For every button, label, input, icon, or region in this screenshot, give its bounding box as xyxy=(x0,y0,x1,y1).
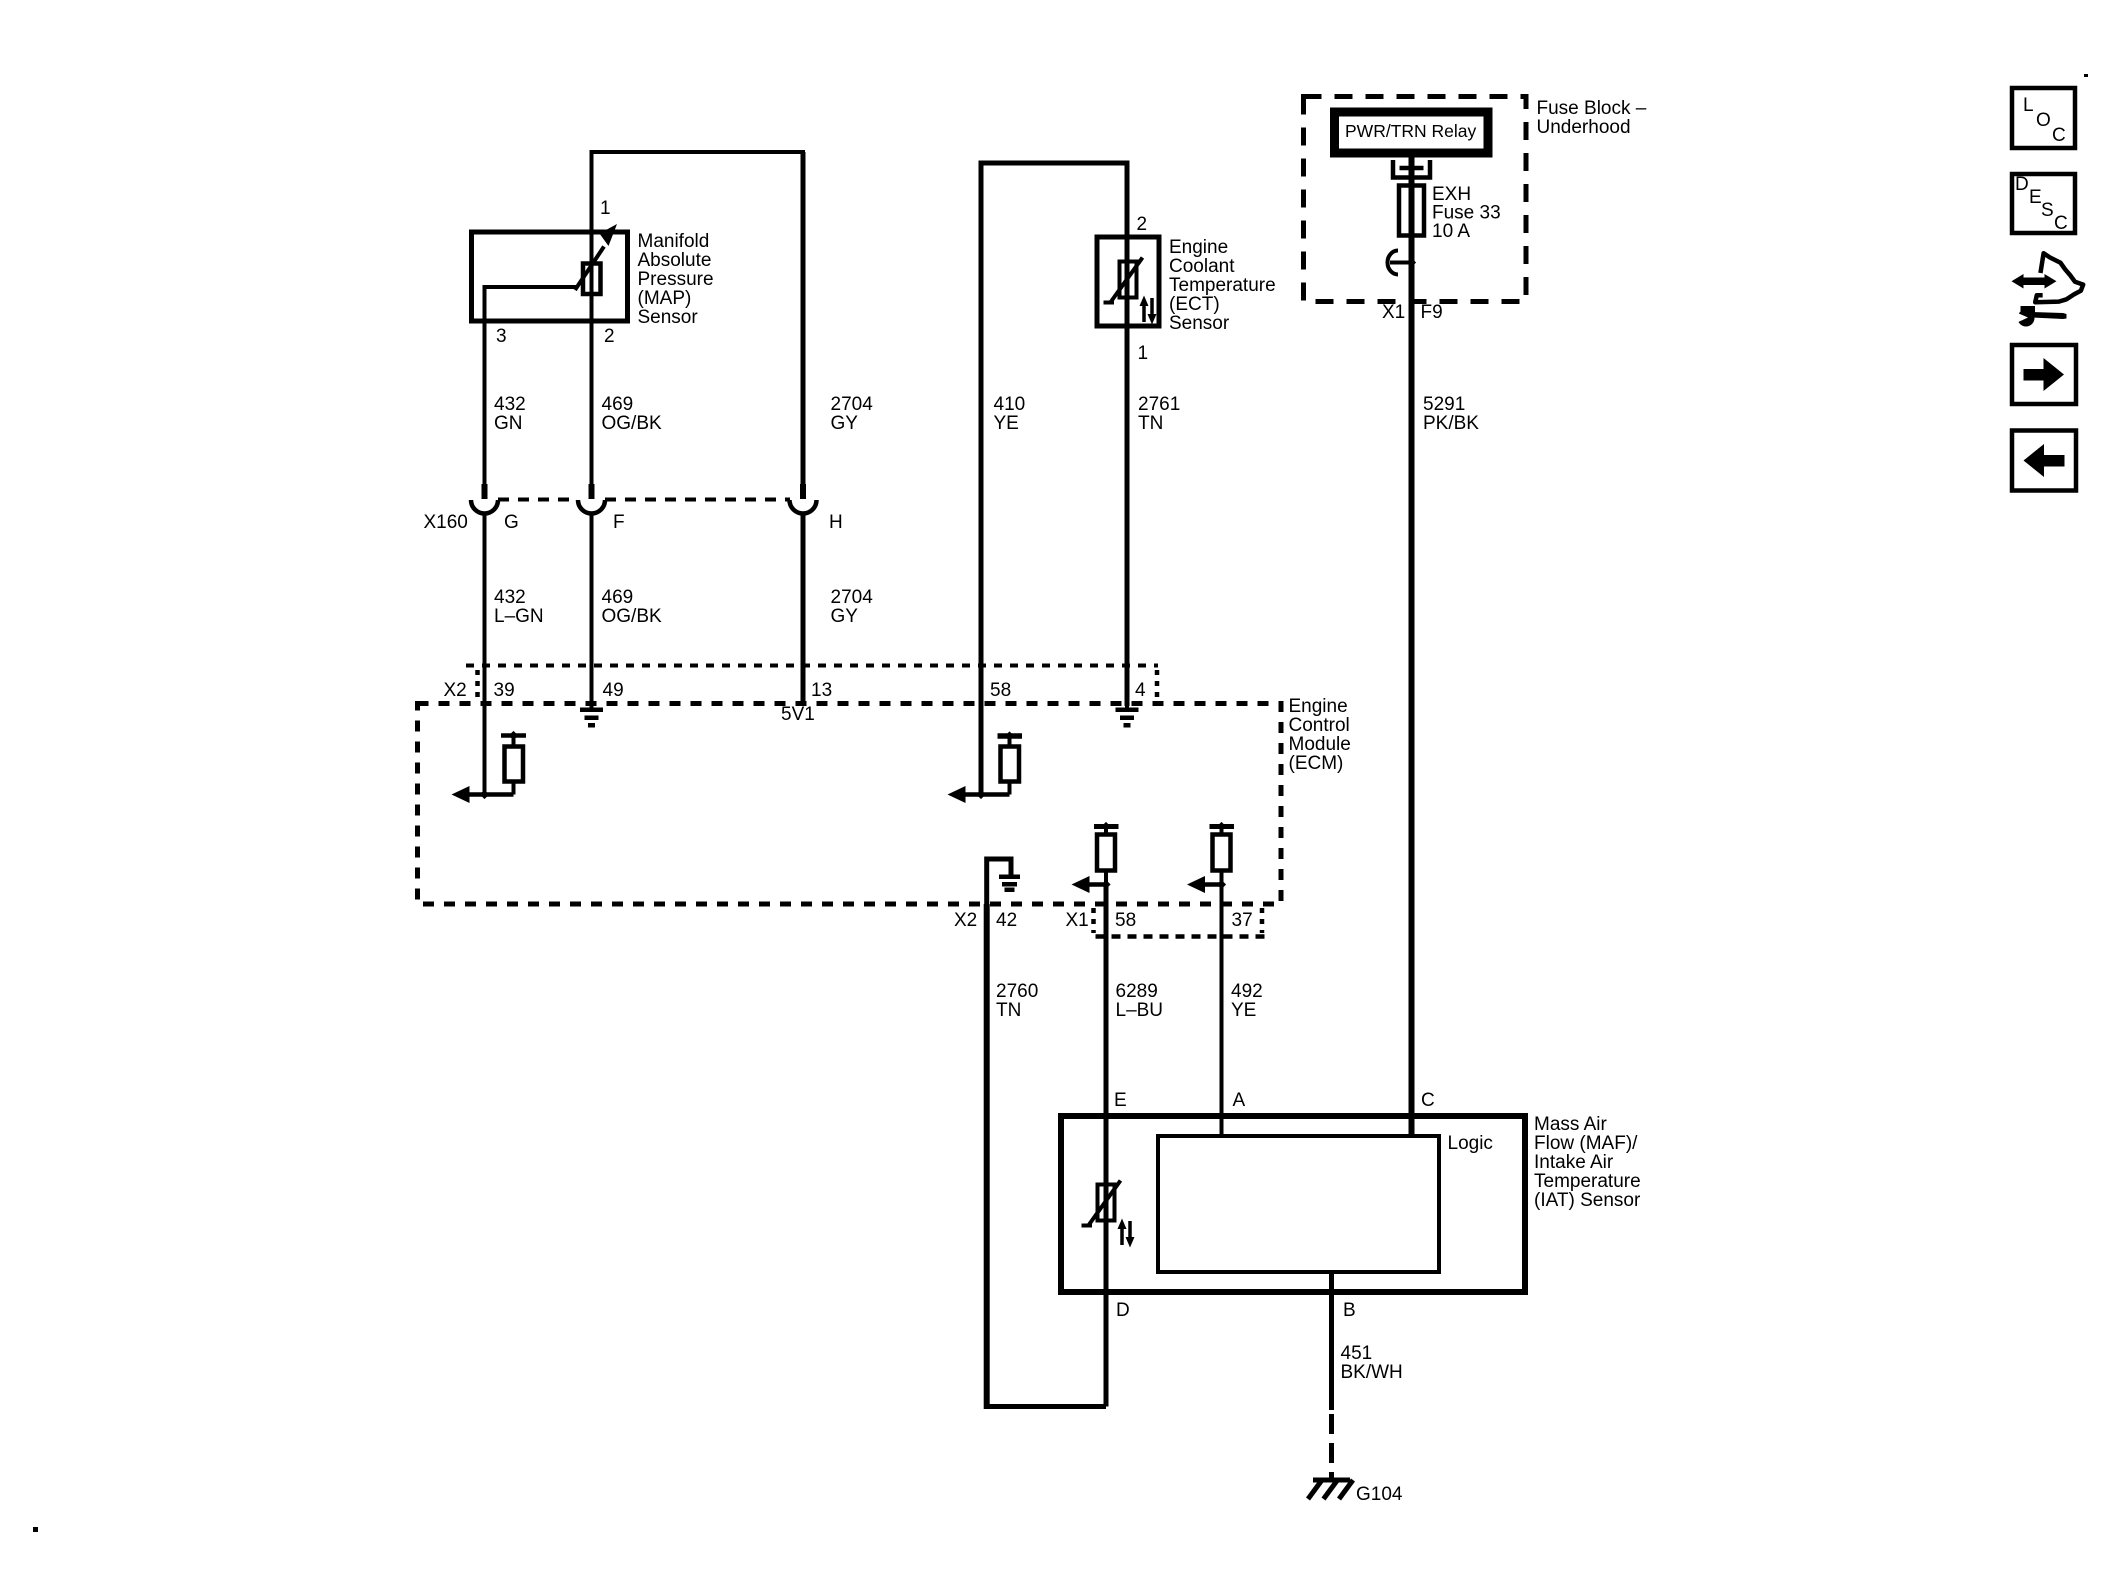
wire: pin 39 inside ECM xyxy=(483,667,487,795)
pin G label xyxy=(504,512,519,533)
svg-text:YE: YE xyxy=(994,413,1019,434)
wire: Logic output pin B xyxy=(1329,1272,1334,1410)
svg-text:F: F xyxy=(613,512,625,533)
pin E label xyxy=(1114,1090,1127,1111)
svg-text:GY: GY xyxy=(831,413,859,434)
pin 58 label (X1) xyxy=(1115,910,1136,931)
svg-text:2: 2 xyxy=(1137,214,1148,235)
svg-text:L–GN: L–GN xyxy=(494,606,544,627)
resistor: ECM pull-up on pin 58 xyxy=(998,731,1023,794)
wire label 5291 PK/BK xyxy=(1423,394,1479,434)
pin F label xyxy=(613,512,625,533)
pin 39 label xyxy=(494,680,515,701)
PWR/TRN Relay box K1 xyxy=(1335,112,1489,153)
svg-text:X160: X160 xyxy=(424,512,468,533)
wire: 451 BK/WH dashed to ground xyxy=(1329,1414,1334,1480)
svg-text:42: 42 xyxy=(996,910,1017,931)
wire 2760 TN vertical xyxy=(984,904,990,1409)
svg-text:Absolute: Absolute xyxy=(638,250,712,271)
thermistor element of IAT sensor xyxy=(1082,1181,1135,1248)
wire label 2704 GY (lower) xyxy=(831,587,874,627)
svg-text:(ECM): (ECM) xyxy=(1289,753,1344,774)
wire: X1-58 internal bus with arrow xyxy=(1072,876,1111,893)
svg-text:Temperature: Temperature xyxy=(1169,275,1276,296)
label: Logic xyxy=(1448,1133,1493,1154)
wire: ECT loop (1127,237)-(1127,163)-(981,163)-(981,665) 410 YE xyxy=(981,163,1127,667)
X160 pin H terminal xyxy=(790,484,817,706)
svg-text:1: 1 xyxy=(600,198,611,219)
pin 3 label (MAP) xyxy=(496,326,507,347)
pin A label xyxy=(1233,1090,1246,1111)
svg-text:TN: TN xyxy=(1138,413,1163,434)
svg-text:E: E xyxy=(1114,1090,1127,1111)
svg-text:OG/BK: OG/BK xyxy=(602,413,663,434)
wire: X1-37 inside ECM xyxy=(1220,885,1224,905)
pin 58 label (X2) xyxy=(990,680,1011,701)
value label: EXH Fuse 33 10 A xyxy=(1432,184,1501,242)
X160 pin F terminal xyxy=(578,484,605,706)
node X1 (fuse block connector) xyxy=(1382,302,1405,323)
label: Mass Air Flow (MAF)/ Intake Air Temperature (IAT) Sensor xyxy=(1534,1114,1641,1211)
svg-text:(ECT): (ECT) xyxy=(1169,294,1220,315)
ground: ECM earth ground on pin 49 xyxy=(580,703,603,728)
svg-text:39: 39 xyxy=(494,680,515,701)
pin 37 label xyxy=(1232,910,1253,931)
svg-text:OG/BK: OG/BK xyxy=(602,606,663,627)
wire label 432 GN xyxy=(494,394,526,434)
wire: pin 39 internal bus with arrow xyxy=(452,786,514,803)
svg-text:X1: X1 xyxy=(1066,910,1089,931)
wire: X1-58 inside ECM xyxy=(1104,885,1109,905)
svg-text:X1: X1 xyxy=(1382,302,1405,323)
connector X2 dotted row xyxy=(466,664,1158,668)
X2 row separator ticks xyxy=(478,670,1158,702)
svg-text:2761: 2761 xyxy=(1138,394,1180,415)
svg-text:432: 432 xyxy=(494,587,526,608)
label: Engine Control Module (ECM) xyxy=(1289,696,1351,774)
ground G104 (chassis) xyxy=(1308,1480,1353,1499)
pin H label xyxy=(829,512,843,533)
label: Engine Coolant Temperature (ECT) Sensor xyxy=(1169,237,1276,334)
wire: pin A into Logic xyxy=(1220,1116,1224,1138)
node X2 label (42 row) xyxy=(954,910,977,931)
resistor: ECM pull-up on X1-58 xyxy=(1094,822,1119,885)
svg-text:13: 13 xyxy=(811,680,832,701)
svg-text:2704: 2704 xyxy=(831,394,874,415)
wire: D to 2760 join xyxy=(987,1404,1106,1409)
resistor: ECM pull-up on pin 39 xyxy=(501,731,526,795)
wire: pin 58 inside ECM xyxy=(979,667,984,795)
svg-text:58: 58 xyxy=(1115,910,1136,931)
variable resistor element of MAP sensor xyxy=(575,224,617,294)
node G104 label xyxy=(1356,1484,1403,1505)
svg-text:E: E xyxy=(2029,187,2042,208)
node X160 label xyxy=(424,512,468,533)
svg-text:Engine: Engine xyxy=(1289,696,1348,717)
svg-text:D: D xyxy=(1116,1300,1130,1321)
svg-text:1: 1 xyxy=(1138,343,1149,364)
Engine Control Module (ECM) dashed enclosure xyxy=(418,704,1282,905)
icon: back arrow box xyxy=(2012,431,2076,491)
MAP sensor box B1 xyxy=(472,232,628,321)
svg-text:D: D xyxy=(2015,174,2029,195)
stray mark top right xyxy=(2084,74,2088,77)
pin 13 label xyxy=(811,680,832,701)
wire label 469 OG/BK (lower) xyxy=(602,587,663,627)
svg-text:Sensor: Sensor xyxy=(1169,313,1230,334)
icon: forward arrow box xyxy=(2012,345,2076,404)
wire label 492 YE xyxy=(1231,981,1263,1021)
svg-text:49: 49 xyxy=(603,680,624,701)
svg-text:4: 4 xyxy=(1135,680,1146,701)
svg-text:37: 37 xyxy=(1232,910,1253,931)
svg-text:5V1: 5V1 xyxy=(781,704,815,725)
svg-text:10 A: 10 A xyxy=(1432,221,1470,242)
wire label 410 YE xyxy=(994,394,1026,434)
wire label 432 L-GN (lower) xyxy=(494,587,544,627)
wire: X1-37 internal bus with arrow xyxy=(1187,876,1226,893)
svg-text:Logic: Logic xyxy=(1448,1133,1493,1154)
svg-text:B: B xyxy=(1343,1300,1356,1321)
pin 2 label (MAP) xyxy=(604,326,615,347)
pin C label xyxy=(1421,1090,1435,1111)
svg-text:2704: 2704 xyxy=(831,587,874,608)
svg-text:X2: X2 xyxy=(954,910,977,931)
wire label 2704 GY (upper) xyxy=(831,394,874,434)
wire label 2761 TN xyxy=(1138,394,1180,434)
icon: LOC box xyxy=(2012,88,2075,148)
wire: MAP pin2 through sensor down (469 OG/BK upper) xyxy=(590,232,594,486)
svg-text:PWR/TRN Relay: PWR/TRN Relay xyxy=(1345,121,1477,141)
svg-text:GY: GY xyxy=(831,606,859,627)
ground: ECM signal ground (X2-42) xyxy=(999,875,1020,893)
thermistor element of ECT sensor xyxy=(1104,258,1157,325)
wire: pin C into Logic xyxy=(1409,1116,1415,1138)
wire: MAP pin1 supply loop (591.5,232)-(591.5,152)-(803,152)-(803,484) xyxy=(592,152,804,486)
X160 pin G terminal xyxy=(471,484,498,667)
svg-text:GN: GN xyxy=(494,413,523,434)
label: Manifold Absolute Pressure (MAP) Sensor xyxy=(638,231,714,328)
pin 1 label (MAP) xyxy=(600,198,611,219)
svg-text:Pressure: Pressure xyxy=(638,269,714,290)
svg-text:Fuse Block –: Fuse Block – xyxy=(1537,98,1647,119)
svg-text:Underhood: Underhood xyxy=(1537,117,1631,138)
wire: relay output to fuse (5291 feed) xyxy=(1409,157,1415,1138)
svg-text:451: 451 xyxy=(1341,1343,1373,1364)
svg-text:X2: X2 xyxy=(444,680,467,701)
svg-text:G: G xyxy=(504,512,519,533)
svg-text:C: C xyxy=(1421,1090,1435,1111)
Logic block inside MAF xyxy=(1158,1136,1439,1272)
svg-text:A: A xyxy=(1233,1090,1246,1111)
ECT sensor box B2 xyxy=(1097,237,1159,326)
svg-text:H: H xyxy=(829,512,843,533)
wire: MAP pin3 down (432 GN upper) xyxy=(483,287,487,486)
svg-text:Intake Air: Intake Air xyxy=(1534,1152,1614,1173)
svg-text:410: 410 xyxy=(994,394,1026,415)
pin 4 label xyxy=(1135,680,1146,701)
svg-text:Sensor: Sensor xyxy=(638,307,699,328)
svg-text:L–BU: L–BU xyxy=(1116,1000,1164,1021)
svg-text:5291: 5291 xyxy=(1423,394,1465,415)
svg-text:Manifold: Manifold xyxy=(638,231,710,252)
svg-text:Flow (MAF)/: Flow (MAF)/ xyxy=(1534,1133,1638,1154)
wire label 2760 TN xyxy=(996,981,1038,1021)
fuse output socket connector xyxy=(1388,251,1417,275)
wire label 451 BK/WH xyxy=(1341,1343,1403,1383)
net 5V1 label xyxy=(781,704,815,725)
fuse block terminal bracket (relay socket) xyxy=(1393,160,1430,178)
wire 6289 L-BU vertical xyxy=(1104,904,1109,1185)
connector X160 dashed line xyxy=(498,498,790,502)
label: Fuse Block - Underhood xyxy=(1537,98,1647,138)
svg-text:Temperature: Temperature xyxy=(1534,1171,1641,1192)
svg-text:C: C xyxy=(2052,125,2066,146)
svg-text:58: 58 xyxy=(990,680,1011,701)
svg-text:TN: TN xyxy=(996,1000,1021,1021)
svg-text:PK/BK: PK/BK xyxy=(1423,413,1479,434)
wire: MAP internal pin3 horizontal xyxy=(485,285,578,287)
svg-text:S: S xyxy=(2041,200,2054,221)
svg-text:F9: F9 xyxy=(1421,302,1443,323)
pin D label xyxy=(1116,1300,1130,1321)
svg-text:YE: YE xyxy=(1231,1000,1256,1021)
svg-text:C: C xyxy=(2054,213,2068,234)
pin B label xyxy=(1343,1300,1356,1321)
pin 2 label (ECT) xyxy=(1137,214,1148,235)
node X2 label xyxy=(444,680,467,701)
Fuse Block - Underhood dashed enclosure xyxy=(1304,97,1527,302)
stray mark bottom left xyxy=(33,1527,38,1532)
wire: X2-42 signal ground hook xyxy=(987,859,1011,904)
svg-text:O: O xyxy=(2036,110,2051,131)
svg-text:492: 492 xyxy=(1231,981,1263,1002)
svg-text:469: 469 xyxy=(602,587,634,608)
svg-text:Control: Control xyxy=(1289,715,1350,736)
connector X1 dotted row xyxy=(1094,908,1265,937)
svg-text:469: 469 xyxy=(602,394,634,415)
svg-text:L: L xyxy=(2023,95,2034,116)
wire: pin E through thermistor to pin D xyxy=(1104,1185,1109,1407)
wire label 469 OG/BK (upper) xyxy=(602,394,663,434)
svg-text:432: 432 xyxy=(494,394,526,415)
node F9 xyxy=(1421,302,1443,323)
svg-text:(IAT) Sensor: (IAT) Sensor xyxy=(1534,1190,1641,1211)
icon: diagnostic arrows and wrench xyxy=(2012,253,2084,326)
svg-text:(MAP): (MAP) xyxy=(638,288,692,309)
svg-text:Module: Module xyxy=(1289,734,1351,755)
svg-text:3: 3 xyxy=(496,326,507,347)
icon: DESC box xyxy=(2012,174,2075,234)
ground: ECM earth ground on pin 4 xyxy=(1116,703,1139,728)
pin 49 label xyxy=(603,680,624,701)
wire: pin 58 internal bus with arrow xyxy=(948,786,1010,803)
wire: ECT pin1 down (2761 TN) xyxy=(1125,237,1130,706)
svg-text:6289: 6289 xyxy=(1116,981,1158,1002)
svg-text:G104: G104 xyxy=(1356,1484,1403,1505)
wire label 6289 L-BU xyxy=(1116,981,1164,1021)
pin 1 label (ECT) xyxy=(1138,343,1149,364)
wire 492 YE vertical xyxy=(1220,904,1224,1138)
MAF/IAT sensor box B3 xyxy=(1061,1116,1525,1292)
fuse F33 (EXH Fuse 33 10A) xyxy=(1399,186,1424,236)
svg-text:2: 2 xyxy=(604,326,615,347)
svg-text:Mass Air: Mass Air xyxy=(1534,1114,1608,1135)
svg-text:Coolant: Coolant xyxy=(1169,256,1235,277)
node X1 label (ECM) xyxy=(1066,910,1089,931)
svg-text:2760: 2760 xyxy=(996,981,1038,1002)
pin 42 label xyxy=(996,910,1017,931)
resistor: ECM pull-up on X1-37 xyxy=(1210,822,1235,885)
svg-text:BK/WH: BK/WH xyxy=(1341,1362,1403,1383)
svg-text:Engine: Engine xyxy=(1169,237,1228,258)
